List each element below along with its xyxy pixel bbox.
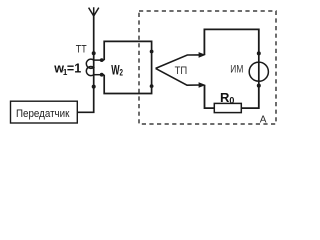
svg-text:ИМ: ИМ	[230, 64, 243, 76]
svg-text:=1: =1	[67, 62, 81, 76]
resistor R0	[214, 103, 241, 112]
winding w2 box (heater)	[104, 41, 151, 93]
antenna	[89, 7, 99, 16]
node: dot on w2 box right edge upper	[150, 50, 154, 54]
wire: lower tap	[94, 74, 105, 76]
transmitter box	[11, 101, 78, 123]
node: lower tap dot	[100, 73, 104, 77]
transformer TT secondary winding arcs	[86, 59, 93, 76]
wire: upper thermocouple to meter (up and over)	[204, 29, 258, 54]
arrowhead upper	[199, 52, 206, 58]
node: bottom winding terminal dot	[92, 85, 96, 89]
arrowhead lower	[199, 82, 206, 88]
dashed enclosure A (thermo-ammeter)	[139, 11, 276, 124]
label w1=1	[53, 62, 81, 77]
thermocouple TP lower branch	[156, 68, 201, 85]
svg-text:А: А	[260, 115, 267, 126]
wire: upper tap	[94, 59, 105, 61]
wire: meter down to resistor	[241, 86, 258, 109]
wire: lower thermocouple down to resistor	[205, 85, 215, 108]
node: dot below meter	[257, 84, 261, 88]
svg-text:Передатчик: Передатчик	[16, 108, 70, 120]
node: top winding terminal dot	[92, 51, 96, 55]
node: upper tap dot	[100, 58, 104, 62]
node: dot above meter	[257, 51, 261, 55]
wire through meter	[258, 53, 260, 85]
svg-text:ТТ: ТТ	[76, 43, 87, 55]
node: dot on w2 box right edge lower	[150, 84, 154, 88]
thermocouple TP upper branch	[156, 55, 201, 69]
svg-text:ТП: ТП	[175, 65, 188, 77]
wire: antenna down to transmitter	[77, 14, 93, 112]
meter IM circle	[249, 62, 268, 81]
